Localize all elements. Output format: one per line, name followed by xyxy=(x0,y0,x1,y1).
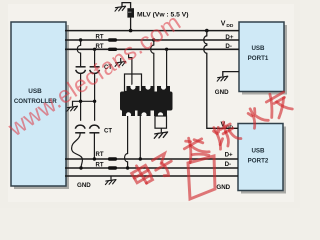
USB controller U1 xyxy=(11,22,66,186)
resistor RT4 on D-2 xyxy=(108,166,117,169)
node D-2 filter pin 4 xyxy=(126,166,129,169)
ground for port 1 xyxy=(217,76,228,81)
filter pin 3 top xyxy=(157,84,170,92)
ground on GND rail xyxy=(105,180,116,185)
wire D+1 to filter pin 2 with hop over D-1 xyxy=(151,40,154,87)
EMI filter chip U2 body xyxy=(120,92,173,111)
svg-text:D+: D+ xyxy=(225,34,233,41)
node VDD branch to port 2 xyxy=(205,29,209,33)
USB controller U1 box shadow xyxy=(14,25,69,189)
svg-text:USB: USB xyxy=(251,45,265,52)
filter bottom pin outline rect xyxy=(155,116,167,128)
filter pin 4 bottom xyxy=(122,110,135,118)
wire D+1 to CT1 with hop over D-1 xyxy=(77,40,80,66)
node tie CT2 xyxy=(93,100,96,103)
capacitor CT2 xyxy=(90,67,100,74)
wire CT2 down to ground tie xyxy=(94,73,96,120)
USB port 2 box shadow xyxy=(241,127,286,194)
capacitor CT3 xyxy=(75,125,85,133)
node MLV junction on VDD xyxy=(129,29,133,33)
svg-text:USB: USB xyxy=(251,148,265,155)
ground for MLV varistor xyxy=(115,6,126,11)
node D-2 CT3 xyxy=(79,166,82,169)
svg-text:D+: D+ xyxy=(225,151,233,158)
node D-1 to filter pin 3 xyxy=(165,48,168,51)
svg-text:V: V xyxy=(221,20,226,27)
node D+2 CT4 xyxy=(93,157,96,160)
node tie CT1 xyxy=(79,100,82,103)
svg-text:GND: GND xyxy=(77,182,91,189)
filter pin 6 bottom xyxy=(154,110,167,118)
svg-text:RT: RT xyxy=(96,162,104,168)
node D+1 to filter pin 2 xyxy=(152,38,155,41)
wire VDD to port 2 with hops over D+1 and D-1 xyxy=(204,31,238,129)
wire D-1 to CT2 xyxy=(94,49,96,66)
wire D+1 rail xyxy=(65,39,239,41)
wire D-1 to filter pin 3 xyxy=(166,49,168,87)
node D+1 to CT1 xyxy=(79,38,82,41)
svg-text:GND: GND xyxy=(216,184,230,191)
resistor RT1 on D+1 xyxy=(108,38,117,41)
wire CT1 down to ground tie xyxy=(80,73,82,120)
wire port 1 GND pin xyxy=(223,72,239,77)
ground for CT tie xyxy=(67,106,78,111)
filter pin 2 top xyxy=(142,84,155,92)
glyph fa xyxy=(179,133,211,166)
resistor RT2 on D-1 xyxy=(108,48,117,51)
wire D-1 rail xyxy=(65,48,239,50)
svg-text:GND: GND xyxy=(215,89,229,96)
wire CT4 to D+2 xyxy=(93,133,95,159)
watermark Chinese glyphs xyxy=(130,88,294,199)
svg-text:PORT1: PORT1 xyxy=(248,55,269,62)
USB port 2 box xyxy=(238,124,283,191)
varistor MLV body xyxy=(127,8,134,17)
svg-text:PORT2: PORT2 xyxy=(248,158,269,165)
ground floating near CT label xyxy=(120,58,122,62)
ground for filter chip xyxy=(154,132,167,138)
wire inside top rect to pin 1 xyxy=(131,74,133,87)
svg-text:RT: RT xyxy=(96,44,104,50)
watermark tofu box xyxy=(188,156,215,199)
wire D-1 stub to filter input rect xyxy=(129,54,132,74)
wire D-2 rail xyxy=(65,167,238,169)
wire VDD rail xyxy=(65,30,239,32)
wire filter pin 5 to D+2 xyxy=(139,116,141,159)
filter top pin outline rect xyxy=(125,74,142,92)
wire filter pin 4 to D-2 with hop over D+2 xyxy=(125,116,128,168)
glyph you xyxy=(261,88,293,121)
filter pin 1 top xyxy=(127,84,140,92)
svg-text:USB: USB xyxy=(28,88,42,95)
capacitor CT4 xyxy=(89,125,99,133)
wire ground tie bar xyxy=(73,101,95,106)
svg-text:D-: D- xyxy=(225,161,232,168)
glyph shao xyxy=(209,119,240,150)
wire GND rail to ground xyxy=(110,176,112,180)
glyph dian xyxy=(130,162,154,187)
glyph zi xyxy=(151,152,177,179)
wire MLV to VDD rail xyxy=(130,18,132,31)
svg-text:RT: RT xyxy=(96,152,104,158)
node D+2 filter pin 5 xyxy=(139,157,142,160)
svg-text:RT: RT xyxy=(96,35,104,41)
glyph huo partial xyxy=(245,104,268,128)
node D-1 to CT2 xyxy=(93,48,96,51)
wire bottom rect to ground xyxy=(160,128,162,132)
wire CT3 to D-2 with S hop over D+2 xyxy=(72,133,83,168)
wire GND rail xyxy=(65,175,238,177)
svg-text:DD: DD xyxy=(226,23,233,29)
filter pin 5 bottom xyxy=(138,110,151,118)
wire D+2 rail xyxy=(65,158,238,160)
resistor RT3 on D+2 xyxy=(108,157,117,160)
svg-text:CT: CT xyxy=(104,129,112,135)
wire MLV ground to varistor xyxy=(122,3,131,9)
svg-text:D-: D- xyxy=(225,43,232,50)
USB port 1 box xyxy=(239,22,284,92)
USB port 1 box shadow xyxy=(242,25,287,95)
capacitor CT1 xyxy=(76,67,86,74)
